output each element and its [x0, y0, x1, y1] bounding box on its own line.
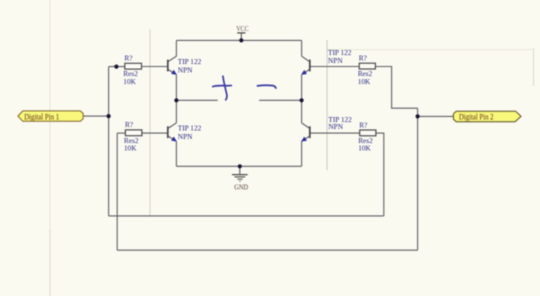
- junction on R1 lead: [114, 65, 118, 69]
- transistor Q1 TIP122 top-left: [168, 56, 202, 75]
- faint guide line left margin: [49, 0, 51, 230]
- wire right rail emitter segment Q4: [301, 142, 303, 167]
- wire bottom GND rail: [176, 165, 301, 167]
- svg-text:GND: GND: [234, 182, 248, 191]
- svg-text:R?: R?: [124, 54, 132, 63]
- wire R4 right lead: [376, 133, 384, 216]
- wire pin2 vertical: [417, 108, 419, 250]
- svg-text:NPN: NPN: [178, 65, 193, 74]
- junction GND: [238, 164, 242, 168]
- wire R2 vertical drop: [116, 133, 118, 250]
- junction left motor tap: [174, 98, 178, 102]
- svg-text:R?: R?: [359, 54, 367, 63]
- wire R4 left lead: [310, 132, 360, 134]
- svg-text:NPN: NPN: [328, 122, 343, 131]
- wire motor stub left: [176, 99, 217, 101]
- faint guide line through left transistors: [149, 29, 151, 216]
- faint guide line right margin: [533, 48, 535, 86]
- wire R3 left lead: [310, 66, 359, 68]
- wire R1 right lead: [142, 66, 168, 68]
- wire crossover loop 1: [109, 215, 384, 217]
- wire left rail emitter segment Q2: [175, 142, 177, 167]
- wire VCC top rail: [176, 39, 301, 41]
- svg-text:R?: R?: [359, 120, 367, 129]
- power port VCC: [236, 24, 248, 41]
- port Digital Pin 1: [18, 111, 83, 122]
- annotation plus sign: [213, 76, 232, 100]
- resistor R2: [124, 120, 142, 152]
- ground GND: [232, 166, 249, 191]
- svg-text:VCC: VCC: [236, 24, 248, 33]
- wire R3 right jog: [375, 67, 417, 109]
- wire left rail collector segment Q1: [175, 40, 177, 56]
- junction pin2: [416, 114, 420, 118]
- faint guide line horizontal: [328, 49, 535, 51]
- wire R2 right lead: [142, 132, 168, 134]
- junction VCC: [239, 38, 243, 42]
- wire left rail motor node segment: [175, 75, 177, 123]
- junction right motor tap: [300, 98, 304, 102]
- svg-text:NPN: NPN: [328, 56, 343, 65]
- transistor Q2 TIP122 bottom-left: [168, 123, 202, 142]
- wire to Digital Pin 2: [418, 115, 454, 117]
- wire pin1 vertical: [108, 67, 110, 216]
- annotation minus sign: [257, 85, 276, 88]
- resistor R4: [358, 120, 376, 152]
- wire R1 left lead: [109, 66, 125, 68]
- svg-text:NPN: NPN: [178, 132, 193, 141]
- svg-text:10K: 10K: [123, 77, 136, 86]
- svg-text:10K: 10K: [358, 77, 371, 86]
- wire from Digital Pin 1: [83, 115, 108, 117]
- resistor R3: [358, 54, 376, 86]
- wire R2 left lead: [117, 132, 125, 134]
- resistor R1: [123, 54, 141, 86]
- svg-text:10K: 10K: [358, 144, 371, 153]
- wire right rail collector segment Q3: [301, 40, 303, 56]
- wire crossover loop 2: [117, 249, 417, 251]
- svg-text:10K: 10K: [124, 144, 137, 153]
- svg-text:Digital Pin 1: Digital Pin 1: [24, 113, 59, 122]
- port Digital Pin 2: [453, 111, 521, 122]
- svg-text:Digital Pin 2: Digital Pin 2: [459, 113, 494, 122]
- junction pin1: [107, 114, 111, 118]
- transistor Q4 TIP122 bottom-right: [301, 115, 352, 142]
- wire motor stub right: [259, 99, 302, 101]
- wire right rail motor node segment: [301, 75, 303, 123]
- svg-text:R?: R?: [125, 120, 133, 129]
- transistor Q3 TIP122 top-right: [301, 48, 352, 75]
- faint guide line through right transistors: [326, 40, 328, 170]
